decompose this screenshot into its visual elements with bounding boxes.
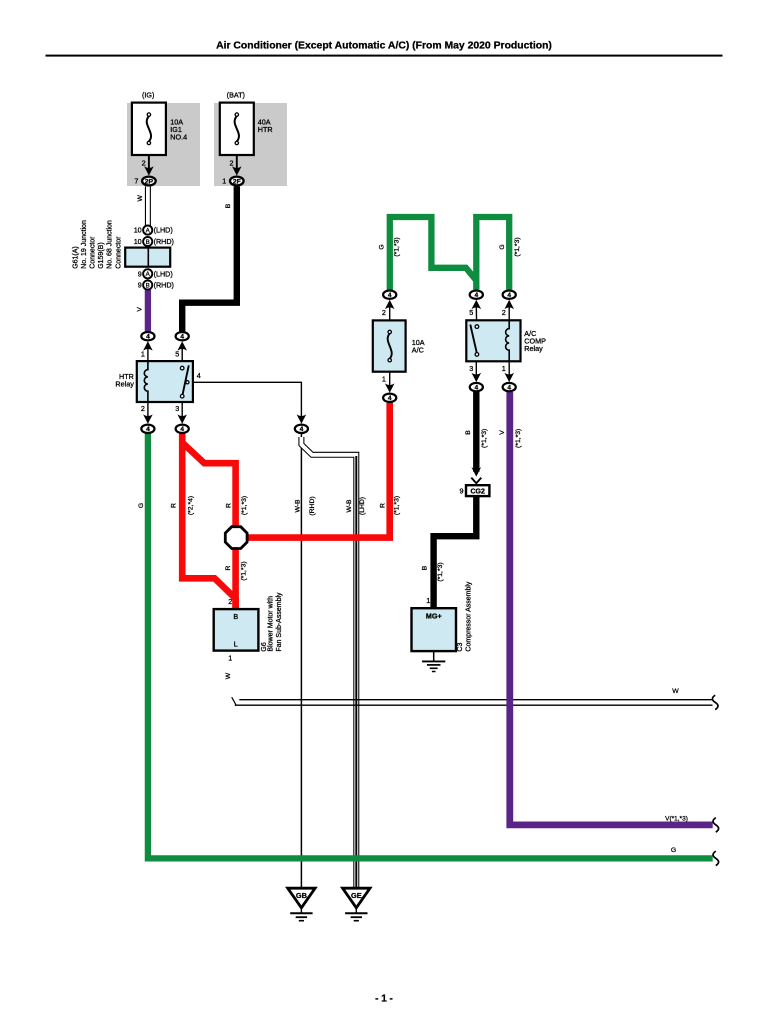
svg-text:B: B: [421, 565, 428, 570]
svg-text:L: L: [234, 640, 238, 649]
svg-text:No. 68 Junction: No. 68 Junction: [107, 220, 114, 269]
svg-text:5: 5: [469, 308, 473, 317]
svg-text:W: W: [225, 672, 232, 679]
svg-text:(RHD): (RHD): [154, 237, 174, 246]
svg-text:(*1,*3): (*1,*3): [437, 562, 444, 581]
svg-text:R: R: [380, 503, 387, 508]
svg-text:1: 1: [141, 350, 145, 359]
svg-text:(*1,*3): (*1,*3): [515, 429, 522, 448]
svg-text:2: 2: [230, 159, 234, 168]
svg-text:W-B: W-B: [294, 499, 301, 513]
svg-text:4: 4: [197, 371, 201, 380]
svg-text:1: 1: [502, 364, 506, 373]
svg-text:9: 9: [138, 269, 142, 278]
svg-text:A/C: A/C: [412, 346, 424, 355]
svg-text:(RHD): (RHD): [309, 496, 316, 515]
svg-text:3: 3: [175, 404, 179, 413]
svg-text:GB: GB: [296, 891, 307, 900]
svg-text:NO.4: NO.4: [170, 132, 187, 141]
svg-text:Connector: Connector: [90, 236, 97, 269]
svg-text:1: 1: [222, 177, 226, 186]
svg-text:HTR: HTR: [258, 125, 273, 134]
svg-text:Air Conditioner (Except Automa: Air Conditioner (Except Automatic A/C) (…: [216, 41, 552, 52]
svg-text:Blower Motor with: Blower Motor with: [267, 596, 274, 652]
svg-text:(*1,*3): (*1,*3): [394, 237, 401, 256]
svg-text:No. 19 Junction: No. 19 Junction: [81, 220, 88, 269]
svg-text:(*1,*3): (*1,*3): [241, 496, 248, 515]
svg-text:10: 10: [134, 226, 142, 235]
svg-text:Fan Sub-Assembly: Fan Sub-Assembly: [276, 592, 283, 652]
svg-text:Compressor Assembly: Compressor Assembly: [465, 581, 472, 652]
svg-text:G159(B): G159(B): [98, 242, 105, 268]
svg-text:10: 10: [134, 237, 142, 246]
svg-text:G: G: [379, 244, 386, 249]
svg-text:(*1,*3): (*1,*3): [481, 429, 488, 448]
svg-text:V: V: [136, 307, 143, 312]
svg-text:5: 5: [175, 350, 179, 359]
svg-text:GE: GE: [351, 891, 362, 900]
svg-text:(RHD): (RHD): [154, 281, 174, 290]
svg-text:G: G: [138, 503, 145, 508]
svg-text:(BAT): (BAT): [227, 91, 245, 100]
svg-text:9: 9: [460, 487, 464, 496]
svg-text:MG+: MG+: [426, 612, 442, 621]
svg-text:- 1 -: - 1 -: [375, 994, 393, 1005]
svg-text:9: 9: [138, 281, 142, 290]
svg-text:2: 2: [228, 597, 232, 606]
svg-text:B: B: [465, 430, 472, 435]
svg-text:Connector: Connector: [115, 236, 122, 269]
svg-text:2: 2: [141, 404, 145, 413]
svg-text:2F: 2F: [233, 179, 241, 186]
svg-text:(LHD): (LHD): [154, 269, 173, 278]
svg-text:(*2,*4): (*2,*4): [187, 496, 194, 515]
svg-text:G: G: [671, 847, 676, 854]
svg-text:Relay: Relay: [115, 380, 134, 389]
svg-text:V: V: [499, 430, 506, 435]
svg-text:G: G: [499, 244, 506, 249]
svg-text:(*1,*3): (*1,*3): [394, 496, 401, 515]
svg-text:2: 2: [382, 308, 386, 317]
svg-text:(*1,*3): (*1,*3): [514, 237, 521, 256]
svg-text:3: 3: [469, 364, 473, 373]
svg-text:C3: C3: [457, 643, 464, 652]
svg-text:Relay: Relay: [524, 344, 543, 353]
svg-text:W: W: [137, 195, 144, 202]
svg-text:B: B: [225, 203, 232, 208]
svg-text:B: B: [146, 282, 150, 289]
svg-text:W-B: W-B: [346, 499, 353, 513]
svg-text:2P: 2P: [145, 179, 154, 186]
svg-text:W: W: [672, 688, 679, 695]
svg-text:(LHD): (LHD): [154, 226, 173, 235]
svg-text:2: 2: [502, 308, 506, 317]
svg-text:1: 1: [426, 596, 430, 605]
svg-text:(IG): (IG): [142, 91, 154, 100]
svg-text:(*1,*3): (*1,*3): [241, 561, 248, 580]
svg-text:1: 1: [228, 654, 232, 663]
svg-text:R: R: [171, 503, 178, 508]
svg-text:R: R: [225, 565, 232, 570]
svg-text:B: B: [146, 239, 150, 246]
svg-text:V(*1,*3): V(*1,*3): [665, 815, 688, 822]
svg-text:G61(A): G61(A): [72, 246, 79, 269]
svg-text:1: 1: [382, 374, 386, 383]
svg-text:2: 2: [142, 159, 146, 168]
svg-text:7: 7: [134, 177, 138, 186]
svg-text:B: B: [233, 612, 238, 621]
svg-text:R: R: [225, 503, 232, 508]
svg-text:CG2: CG2: [470, 489, 485, 496]
svg-text:(LHD): (LHD): [359, 497, 366, 515]
